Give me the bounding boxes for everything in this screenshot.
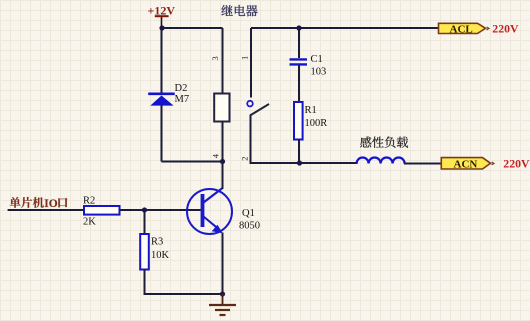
resistor R3 body (140, 234, 149, 270)
svg-text:10K: 10K (151, 250, 170, 261)
relay coil body rectangle (214, 94, 229, 122)
wire D2 branch vertical upper (161, 28, 163, 93)
wire C1 upper lead (298, 28, 300, 58)
label 感性负载 (drawn glyphs) (360, 136, 408, 147)
diode D2 triangle (150, 96, 173, 106)
wire R2 to base (120, 209, 201, 211)
wire switch top pin (250, 28, 252, 98)
svg-text:D2: D2 (175, 83, 188, 94)
wire R3 bottom to ground run (145, 270, 223, 295)
relay switch contact circle (247, 101, 253, 107)
ground bar 1 (209, 304, 236, 306)
svg-text:100R: 100R (305, 118, 328, 129)
svg-text:4: 4 (211, 153, 221, 158)
node junction R1 bottom (297, 160, 302, 165)
relay label 继电器 (drawn glyphs) (221, 5, 257, 16)
label 单片机IO口 (drawn glyphs + IO) (10, 197, 68, 210)
svg-text:220V: 220V (503, 157, 530, 171)
wire R3 upper lead (144, 210, 146, 234)
svg-text:R3: R3 (151, 237, 163, 248)
diode D2 cathode bar (148, 93, 175, 96)
node junction C1 top (296, 25, 301, 30)
svg-text:220V: 220V (492, 21, 519, 35)
wire inductor to ACN (404, 163, 441, 165)
svg-text:2: 2 (239, 157, 249, 161)
wire R1 bottom lead (298, 140, 300, 164)
svg-text:Q1: Q1 (242, 208, 255, 219)
transistor Q1 circle (187, 189, 232, 234)
capacitor C1 top plate (290, 58, 308, 60)
wire D2 branch vertical lower (161, 105, 163, 162)
svg-text:103: 103 (311, 67, 327, 78)
node junction at ground (220, 291, 225, 296)
wire relay coil top pin (222, 28, 224, 94)
wire horizontal D2 bottom to coil bottom (162, 161, 223, 163)
wire switch bottom pin (251, 115, 300, 163)
wire emitter vertical (222, 233, 224, 295)
node junction coil bottom / collector (220, 159, 225, 164)
node junction at +12V (159, 25, 164, 30)
resistor R1 body (294, 102, 303, 140)
wire MCU input (8, 209, 84, 211)
transistor Q1 emitter stroke (204, 217, 220, 230)
svg-text:M7: M7 (175, 94, 190, 105)
svg-text:3: 3 (210, 56, 220, 60)
svg-text:C1: C1 (311, 54, 323, 65)
inductor coil 感性负载 (357, 158, 405, 164)
transistor Q1 collector stroke (204, 188, 223, 203)
capacitor C1 bottom plate (290, 63, 308, 65)
wire ACL horizontal (251, 27, 438, 29)
wire to inductor (300, 162, 358, 164)
power +12V bar symbol (155, 15, 169, 17)
node junction R3 top (142, 207, 147, 212)
wire relay coil bottom pin (222, 122, 224, 162)
svg-text:IO: IO (44, 198, 57, 210)
ground stem (222, 294, 224, 305)
port ACN (441, 158, 494, 171)
svg-text:2K: 2K (83, 217, 96, 228)
transistor Q1 base bar (201, 194, 205, 227)
wire C1 to R1 (298, 66, 300, 103)
svg-text:R2: R2 (83, 196, 95, 207)
power +12V stem (161, 17, 163, 28)
ground bar 2 (215, 309, 230, 311)
port ACL (439, 23, 490, 35)
transistor Q1 emitter arrowhead (212, 225, 223, 234)
wire collector vertical (222, 162, 224, 190)
svg-text:R1: R1 (305, 105, 317, 116)
relay switch blade (250, 104, 269, 116)
svg-text:1: 1 (239, 56, 249, 60)
svg-text:ACN: ACN (454, 158, 478, 170)
svg-text:8050: 8050 (239, 220, 260, 231)
svg-text:ACL: ACL (450, 23, 473, 35)
ground bar 3 (220, 314, 226, 316)
resistor R2 body (84, 206, 120, 215)
wire +12V horizontal to coil top (162, 27, 223, 29)
